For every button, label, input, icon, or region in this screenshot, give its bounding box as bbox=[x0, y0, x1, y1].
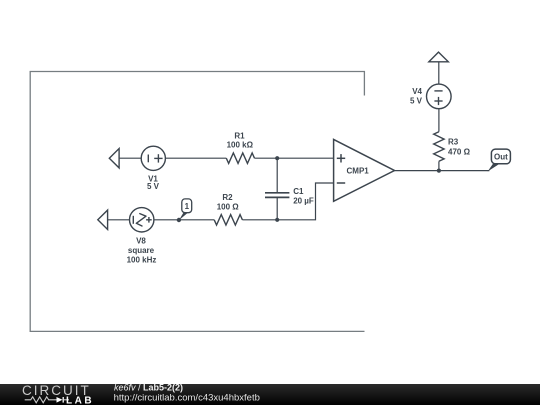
svg-text:square: square bbox=[128, 246, 155, 255]
Out flag bbox=[491, 149, 510, 164]
node 1 flag tail bbox=[179, 212, 188, 220]
svg-text:5 V: 5 V bbox=[410, 97, 423, 106]
svg-text:R1: R1 bbox=[234, 132, 245, 141]
wire V8 arrow to V8 bbox=[108, 219, 130, 221]
svg-text:C1: C1 bbox=[293, 187, 304, 196]
svg-text:LAB: LAB bbox=[66, 395, 94, 405]
wire C1 to bottom wire bbox=[276, 197, 278, 219]
capacitor C1 bbox=[265, 193, 289, 198]
svg-text:R3: R3 bbox=[448, 138, 459, 147]
CircuitLab logo diode bbox=[57, 397, 63, 403]
node 1 junction dot bbox=[177, 218, 181, 222]
wire R1 to op-amp plus input bbox=[255, 157, 334, 159]
wire op-amp output bbox=[395, 170, 490, 172]
square wave source V8 bbox=[130, 208, 154, 232]
svg-text:http://circuitlab.com/c43xu4hb: http://circuitlab.com/c43xu4hbxfetb bbox=[114, 392, 260, 403]
svg-text:20 µF: 20 µF bbox=[293, 197, 314, 206]
svg-text:100 Ω: 100 Ω bbox=[217, 203, 240, 212]
svg-text:100 kΩ: 100 kΩ bbox=[227, 141, 254, 150]
resistor R1 bbox=[226, 153, 254, 163]
wire V8 to R2 bbox=[154, 219, 214, 221]
wire R3 to V4 bbox=[438, 109, 440, 132]
wire long open loop bbox=[30, 72, 364, 332]
flag arrow at V8 left bbox=[98, 210, 108, 229]
supply arrow above V4 bbox=[429, 52, 448, 62]
wire V1 arrow to V1 bbox=[119, 157, 141, 159]
Out flag tail bbox=[488, 164, 500, 172]
node 1 flag bbox=[182, 199, 192, 213]
wire R2 to corner below op-amp minus bbox=[242, 183, 333, 220]
wire V1 to R1 bbox=[165, 157, 226, 159]
junction dot output bbox=[437, 169, 441, 173]
svg-text:ke6fv / Lab5-2(2): ke6fv / Lab5-2(2) bbox=[114, 384, 183, 393]
CircuitLab logo resistor squiggle bbox=[25, 397, 57, 403]
wire junction down to C1 bbox=[276, 158, 278, 192]
flag arrow at V1 left bbox=[109, 149, 119, 168]
wire junction up to R3 bbox=[438, 161, 440, 170]
resistor R2 bbox=[214, 215, 242, 225]
svg-text:470 Ω: 470 Ω bbox=[448, 148, 471, 157]
svg-text:5 V: 5 V bbox=[147, 182, 160, 191]
voltage source V4 bbox=[427, 84, 452, 109]
svg-text:V4: V4 bbox=[412, 87, 422, 96]
op-amp CMP1 bbox=[334, 139, 395, 201]
svg-text:V8: V8 bbox=[136, 237, 146, 246]
svg-text:1: 1 bbox=[185, 202, 190, 211]
svg-text:R2: R2 bbox=[222, 193, 233, 202]
footer bar bbox=[0, 384, 540, 405]
node junction on top wire bbox=[275, 156, 279, 160]
svg-text:Out: Out bbox=[494, 153, 508, 162]
junction dot bottom wire bbox=[275, 218, 279, 222]
wire V4 to supply arrow bbox=[438, 62, 440, 84]
svg-text:100 kHz: 100 kHz bbox=[127, 255, 157, 264]
svg-text:CMP1: CMP1 bbox=[347, 167, 370, 176]
voltage source V1 bbox=[141, 146, 165, 170]
resistor R3 bbox=[434, 132, 444, 162]
